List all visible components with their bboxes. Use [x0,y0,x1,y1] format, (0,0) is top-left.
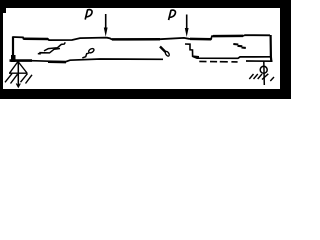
beam bottom thick bar over left support [10,59,33,62]
left pin support arrow tick [16,84,20,88]
frame bottom border [0,89,291,99]
beam top edge [13,35,271,40]
crack A zigzag lower stroke [38,49,60,54]
right support hatch 5 [270,77,274,81]
right support pin [263,62,266,86]
beam bottom lower dashes right [199,60,237,63]
load P2 label [169,10,176,20]
right support hatch 1 [249,74,253,79]
load P1 arrowhead [104,28,108,37]
right support hatch 2 [254,74,258,79]
left support hatch 2 [11,74,18,83]
load P2 arrow shaft [186,15,188,31]
load P1 label [85,10,92,20]
crack C hook loop [165,51,170,57]
frame top border [0,0,291,8]
crack E dashes [233,44,246,48]
beam right edge [270,35,273,61]
right support plate line [246,60,273,62]
left pin support center pin [17,61,19,87]
frame left border [0,0,3,99]
left support hatch 1 [5,74,12,83]
crack B loop [88,48,95,54]
right support hatch 4 [262,74,268,80]
crack D staircase [185,44,199,57]
beam left edge [12,37,14,62]
frame right border [280,0,291,99]
crack A zigzag upper stroke [44,42,65,51]
load P1 arrow shaft [105,14,107,30]
beam bottom edge thick dash [48,61,66,64]
right support hatch 3 [258,74,262,79]
left support hatch 4 [26,75,33,84]
frame left corner step [0,0,6,13]
left pin support triangle [9,62,28,74]
crack C diagonal [160,47,166,53]
left support hatch 3 [21,74,28,83]
crack B diagonal [82,53,89,58]
right support roller circle [260,66,267,73]
beam bottom edge [12,56,270,61]
beam top edge thick runs [24,36,244,40]
load P2 arrowhead [185,28,189,37]
beam bottom-left corner blob [11,55,16,62]
